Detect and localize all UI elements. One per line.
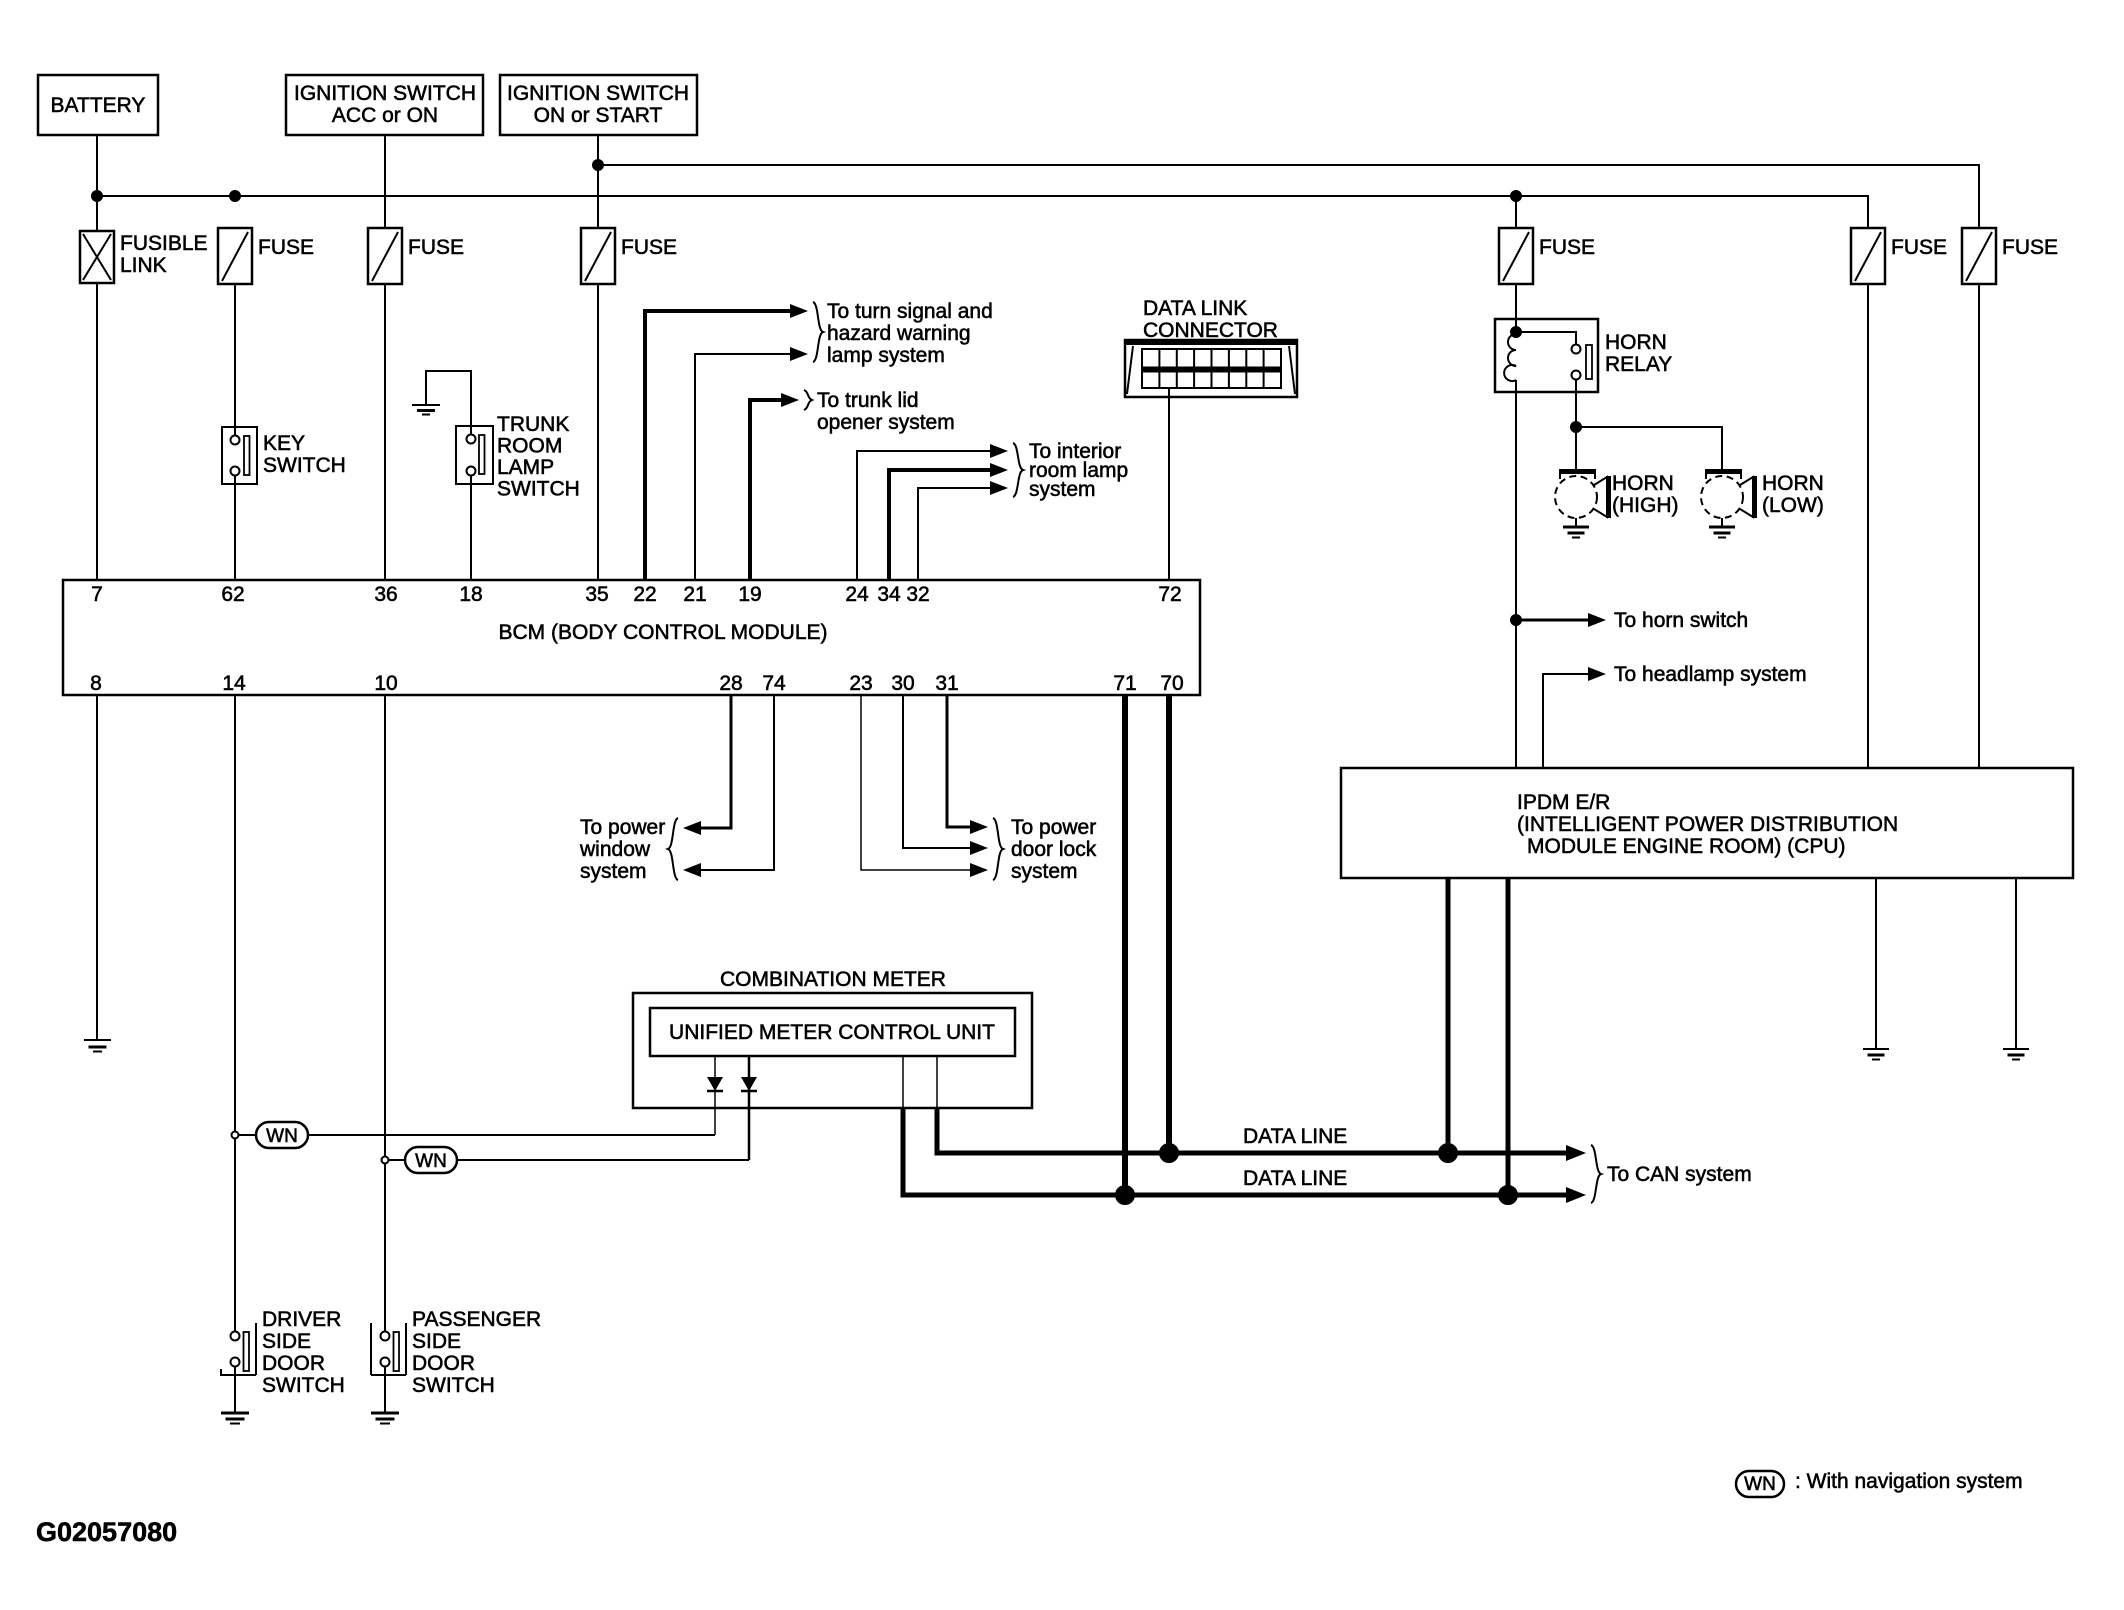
wire BCM pin10 to passenger door switch [384, 695, 386, 1331]
wire IPDM batt fuse down [1867, 284, 1869, 768]
wire pin74 to power window arrow [696, 695, 774, 870]
ignition switch ON/START box [500, 75, 697, 135]
svg-text:To power: To power [1011, 816, 1096, 839]
label data line 2 [1243, 1167, 1347, 1190]
relay contact bar [1586, 345, 1592, 379]
horn HIGH [1555, 471, 1679, 527]
data link connector J1 [1125, 297, 1297, 397]
wire battery to bus [96, 135, 98, 231]
node CAN-L x data2 [1499, 1186, 1517, 1204]
label to interior room lamp [1029, 440, 1128, 501]
arrow power window 1 [683, 821, 701, 835]
svg-text:system: system [1011, 860, 1078, 883]
arrow room lamp 1 [990, 444, 1008, 458]
pin 34 [877, 583, 901, 606]
arrow to horn switch [1588, 613, 1606, 627]
svg-text:COMBINATION METER: COMBINATION METER [720, 968, 946, 991]
ignition switch ACC box [286, 75, 483, 135]
wire IPDM CAN-L down [1506, 878, 1511, 1195]
relay coil L1 [1504, 334, 1516, 381]
wire pin22 to turn signal arrow [645, 311, 795, 580]
svg-text:8: 8 [90, 672, 102, 695]
wire pin21 to lamp system arrow [695, 354, 795, 580]
pin 22 [633, 583, 656, 606]
fusible link FL [80, 231, 208, 283]
label data line 1 [1243, 1125, 1347, 1148]
fuse F5 (IPDM batt) [1851, 228, 1947, 284]
BCM (BODY CONTROL MODULE) box [63, 580, 1200, 695]
ground horn high [1563, 527, 1589, 538]
label to headlamp [1614, 663, 1807, 686]
svg-text:lamp system: lamp system [827, 344, 945, 367]
svg-text:DOOR: DOOR [262, 1352, 325, 1375]
svg-text:30: 30 [891, 672, 914, 695]
svg-text:23: 23 [849, 672, 872, 695]
driver side door switch S3 [221, 1308, 345, 1413]
svg-text:KEY: KEY [263, 432, 305, 455]
wire pin28 to power window arrow [696, 695, 731, 828]
wire key switch to BCM pin62 [234, 476, 236, 580]
svg-text:To horn switch: To horn switch [1614, 609, 1748, 632]
wire bus rail upper (ON/START feed) [598, 165, 1979, 228]
svg-text:WN: WN [1744, 1474, 1776, 1495]
wire trunk switch to BCM pin18 [470, 476, 472, 580]
svg-text:system: system [580, 860, 647, 883]
svg-text:HORN: HORN [1612, 472, 1674, 495]
svg-text:62: 62 [221, 583, 244, 606]
ground trunk switch [412, 405, 440, 415]
fuse F4 (horn) [1499, 228, 1595, 284]
svg-text:ON or START: ON or START [534, 104, 663, 127]
pin 35 [585, 583, 608, 606]
svg-text:22: 22 [633, 583, 656, 606]
pin 19 [738, 583, 761, 606]
ground IPDM 2 [2003, 1049, 2029, 1060]
wire pin34 to room lamp arrow [889, 470, 995, 580]
wire ON fuse to BCM pin35 [597, 284, 599, 580]
svg-text:WN: WN [266, 1126, 298, 1147]
label to CAN system [1607, 1163, 1752, 1186]
unified meter control unit box [650, 1008, 1015, 1056]
pin 8 [90, 672, 102, 695]
wire meter data line 1 [936, 1056, 938, 1108]
svg-text:70: 70 [1160, 672, 1183, 695]
svg-text:28: 28 [719, 672, 742, 695]
node WN tap 1 [232, 1132, 239, 1139]
svg-text:DATA LINK: DATA LINK [1143, 297, 1247, 320]
wire relay coil link to contact [1516, 332, 1576, 344]
arrow door lock 2 [970, 841, 988, 855]
svg-text:(HIGH): (HIGH) [1612, 494, 1679, 517]
key switch S1 [222, 427, 346, 484]
svg-text:74: 74 [762, 672, 786, 695]
svg-text:To CAN system: To CAN system [1607, 1163, 1752, 1186]
wire relay contact to horn node [1575, 379, 1577, 427]
pin 18 [459, 583, 482, 606]
pin 62 [221, 583, 244, 606]
brace room lamp [1013, 443, 1023, 497]
pin 28 [719, 672, 742, 695]
trunk room lamp switch S2 [456, 413, 580, 501]
wire data line 1 (upper) [937, 1108, 1573, 1153]
svg-text:FUSE: FUSE [258, 236, 314, 259]
svg-text:HORN: HORN [1605, 331, 1667, 354]
svg-text:HORN: HORN [1762, 472, 1824, 495]
node junction ONSTART-rail [593, 160, 603, 170]
WN connector oval 2 [389, 1147, 458, 1173]
arrow turn signal 2 [790, 347, 808, 361]
relay contact terminals [1572, 345, 1581, 380]
svg-text:10: 10 [374, 672, 397, 695]
pin 31 [935, 672, 958, 695]
svg-text:18: 18 [459, 583, 482, 606]
svg-text:FUSE: FUSE [2002, 236, 2058, 259]
svg-text:To trunk lid: To trunk lid [817, 389, 919, 412]
ground horn low [1709, 527, 1735, 538]
wire ground to trunk switch [426, 371, 471, 434]
horn LOW [1701, 471, 1824, 527]
svg-text:19: 19 [738, 583, 761, 606]
pin 32 [906, 583, 929, 606]
node junction fuse62-bus [230, 191, 240, 201]
node CAN-H x data1 [1439, 1144, 1457, 1162]
brace turn signal [813, 302, 823, 362]
svg-text:14: 14 [222, 672, 246, 695]
arrow turn signal 1 [790, 304, 808, 318]
wire pin23 to door lock arrow [861, 695, 975, 870]
wire IPDM ground 2 [2015, 878, 2017, 1049]
wire DLC to BCM pin72 [1168, 388, 1170, 580]
svg-text:7: 7 [91, 583, 103, 606]
wire pin70 thick down [1166, 695, 1172, 1153]
wire BCM pin8 to ground [96, 695, 98, 1040]
diode D1 [707, 1056, 723, 1135]
svg-text:MODULE ENGINE ROOM) (CPU): MODULE ENGINE ROOM) (CPU) [1527, 835, 1846, 858]
svg-text:ROOM: ROOM [497, 435, 562, 458]
svg-text:ACC or ON: ACC or ON [332, 104, 438, 127]
fuse F3 (ON/START) [581, 228, 677, 284]
svg-text:To power: To power [580, 816, 665, 839]
figure number G02057080 [36, 1517, 177, 1547]
wire bus to horn fuse [1515, 196, 1517, 228]
node horn switch branch [1511, 615, 1521, 625]
wire pin24 to room lamp arrow [857, 451, 995, 580]
arrow data line 2 [1566, 1187, 1586, 1203]
wire data line 2 (lower) [903, 1108, 1573, 1195]
wire BCM pin14 to driver door switch [234, 695, 236, 1331]
svg-text:SIDE: SIDE [262, 1330, 311, 1353]
WN connector oval 1 [239, 1122, 309, 1148]
wire bus rail lower (battery feed) [97, 196, 1868, 228]
arrow room lamp 2 [990, 463, 1008, 477]
IPDM E/R box [1341, 768, 2073, 878]
ground driver door switch [221, 1413, 249, 1424]
svg-text:34: 34 [877, 583, 901, 606]
svg-text:system: system [1029, 478, 1096, 501]
pin 24 [845, 583, 869, 606]
svg-text:IGNITION SWITCH: IGNITION SWITCH [294, 82, 476, 105]
svg-text:FUSIBLE: FUSIBLE [120, 232, 208, 255]
passenger side door switch S4 [371, 1308, 541, 1413]
arrow data line 1 [1566, 1145, 1586, 1161]
wire ACC down [384, 135, 386, 228]
arrow door lock 1 [970, 820, 988, 834]
node junction hornfuse-bus [1511, 191, 1521, 201]
svg-text:DRIVER: DRIVER [262, 1308, 341, 1331]
svg-text:SWITCH: SWITCH [263, 454, 346, 477]
svg-text:door lock: door lock [1011, 838, 1097, 861]
fuse F6 (IPDM ign) [1962, 228, 2058, 284]
wire node to horn low [1576, 427, 1722, 469]
pin 71 [1113, 672, 1136, 695]
wire IPDM CAN-H down [1446, 878, 1451, 1153]
svg-text:To turn signal and: To turn signal and [827, 300, 993, 323]
wire node to horn high [1575, 427, 1577, 469]
ground passenger door switch [371, 1413, 399, 1424]
brace power window [668, 818, 678, 880]
pin 36 [374, 583, 397, 606]
svg-text:UNIFIED METER CONTROL UNIT: UNIFIED METER CONTROL UNIT [669, 1021, 995, 1044]
legend WN oval [1736, 1470, 2023, 1497]
wire pin30 to door lock arrow [903, 695, 975, 848]
wire IPDM ign fuse down [1978, 284, 1980, 768]
arrow trunk lid [781, 393, 799, 407]
brace trunk lid [804, 390, 812, 410]
svg-text:CONNECTOR: CONNECTOR [1143, 319, 1278, 342]
svg-text:SWITCH: SWITCH [497, 478, 580, 501]
svg-text:To headlamp system: To headlamp system [1614, 663, 1807, 686]
svg-text:PASSENGER: PASSENGER [412, 1308, 541, 1331]
brace CAN [1591, 1145, 1601, 1203]
wire pin71 thick down [1122, 695, 1128, 1195]
svg-text:LINK: LINK [120, 254, 167, 277]
node junction battery-bus [92, 191, 102, 201]
ground BCM pin8 [84, 1040, 111, 1052]
node pin70 x data1 [1160, 1144, 1178, 1162]
svg-text:: With navigation system: : With navigation system [1795, 1470, 2023, 1493]
svg-text:opener system: opener system [817, 411, 955, 434]
svg-text:FUSE: FUSE [621, 236, 677, 259]
svg-text:SIDE: SIDE [412, 1330, 461, 1353]
wire fuse to key switch [234, 284, 236, 435]
svg-text:IGNITION SWITCH: IGNITION SWITCH [507, 82, 689, 105]
svg-text:36: 36 [374, 583, 397, 606]
svg-text:71: 71 [1113, 672, 1136, 695]
wire to horn switch [1516, 619, 1593, 622]
svg-text:FUSE: FUSE [1891, 236, 1947, 259]
wire pin19 to trunk lid arrow [750, 400, 786, 580]
pin 30 [891, 672, 914, 695]
label to horn switch [1614, 609, 1748, 632]
pin 14 [222, 672, 246, 695]
svg-text:32: 32 [906, 583, 929, 606]
node WN tap 2 [382, 1157, 389, 1164]
label to power door lock [1011, 816, 1097, 883]
pin 21 [683, 583, 706, 606]
arrow power window 2 [683, 863, 701, 877]
svg-text:FUSE: FUSE [408, 236, 464, 259]
svg-text:TRUNK: TRUNK [497, 413, 569, 436]
horn relay K1 box [1495, 319, 1672, 392]
svg-text:LAMP: LAMP [497, 456, 554, 479]
label to trunk lid [817, 389, 955, 434]
node horn branch [1571, 422, 1581, 432]
svg-text:35: 35 [585, 583, 608, 606]
wire battery fuse to BCM pin7 [96, 283, 98, 580]
wire meter data line 2 [902, 1056, 904, 1108]
svg-text:SWITCH: SWITCH [412, 1374, 495, 1397]
brace door lock [993, 818, 1003, 880]
svg-text:DATA LINE: DATA LINE [1243, 1167, 1347, 1190]
wire relay coil to IPDM [1515, 380, 1517, 768]
pin 74 [762, 672, 786, 695]
wire horn fuse to relay [1515, 284, 1517, 332]
svg-text:FUSE: FUSE [1539, 236, 1595, 259]
svg-text:DATA LINE: DATA LINE [1243, 1125, 1347, 1148]
svg-text:G02057080: G02057080 [36, 1517, 177, 1547]
wire WN2 to meter diode 2 [457, 1159, 749, 1161]
svg-text:window: window [579, 838, 651, 861]
svg-text:BATTERY: BATTERY [51, 94, 146, 117]
pin 23 [849, 672, 872, 695]
svg-text:(LOW): (LOW) [1762, 494, 1824, 517]
wire WN1 to meter diode 1 [308, 1134, 715, 1136]
wire ON/START down [597, 135, 599, 228]
battery B1 box [38, 75, 158, 135]
svg-text:IPDM E/R: IPDM E/R [1517, 791, 1610, 814]
wire IPDM ground 1 [1875, 878, 1877, 1049]
svg-text:24: 24 [845, 583, 869, 606]
wire ACC fuse to BCM pin36 [384, 284, 386, 580]
pin 7 [91, 583, 103, 606]
pin 70 [1160, 672, 1183, 695]
node pin71 x data2 [1116, 1186, 1134, 1204]
svg-text:31: 31 [935, 672, 958, 695]
label to turn signal [827, 300, 993, 367]
wire pin32 to room lamp arrow [918, 488, 995, 580]
arrow room lamp 3 [990, 481, 1008, 495]
svg-text:(INTELLIGENT POWER DISTRIBUTIO: (INTELLIGENT POWER DISTRIBUTION [1517, 813, 1898, 836]
combination meter box [633, 968, 1032, 1108]
svg-text:72: 72 [1158, 583, 1181, 606]
svg-text:hazard warning: hazard warning [827, 322, 971, 345]
wire pin31 to door lock arrow [947, 695, 975, 827]
svg-text:DOOR: DOOR [412, 1352, 475, 1375]
ground IPDM 1 [1863, 1049, 1889, 1060]
fuse F1 (key switch) [218, 228, 314, 284]
arrow door lock 3 [970, 863, 988, 877]
diode D2 [741, 1056, 757, 1160]
svg-text:21: 21 [683, 583, 706, 606]
arrow to headlamp [1588, 667, 1606, 681]
node relay coil top [1511, 327, 1521, 337]
label to power window [579, 816, 665, 883]
svg-text:RELAY: RELAY [1605, 353, 1672, 376]
wire to headlamp system [1543, 674, 1593, 768]
pin 10 [374, 672, 397, 695]
svg-text:SWITCH: SWITCH [262, 1374, 345, 1397]
pin 72 [1158, 583, 1181, 606]
fuse F2 (ACC) [368, 228, 464, 284]
svg-text:BCM (BODY CONTROL MODULE): BCM (BODY CONTROL MODULE) [498, 621, 827, 644]
svg-text:WN: WN [415, 1151, 447, 1172]
